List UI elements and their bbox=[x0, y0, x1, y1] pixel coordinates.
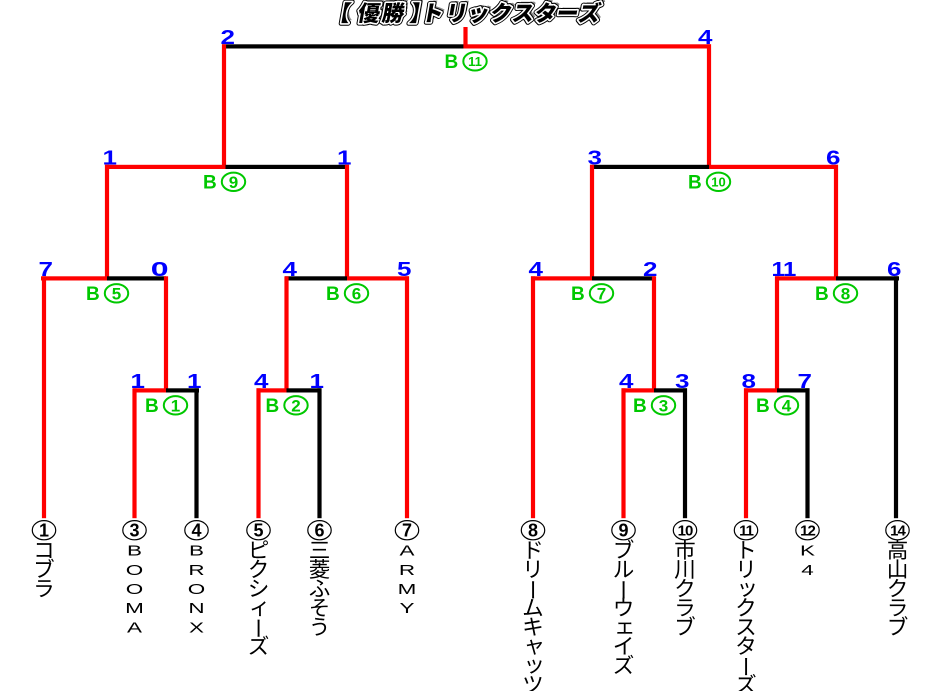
svg-text:1: 1 bbox=[310, 370, 325, 392]
label B10 bbox=[688, 172, 730, 193]
team name 1 bbox=[36, 543, 54, 597]
svg-text:M: M bbox=[125, 601, 144, 617]
team badge 7 bbox=[395, 521, 418, 541]
match B5 horizontal bbox=[41, 276, 107, 280]
svg-text:5: 5 bbox=[253, 521, 263, 541]
svg-text:4: 4 bbox=[801, 563, 813, 579]
team 10 ichikawa entry line bbox=[683, 388, 687, 518]
score 5 bbox=[397, 258, 412, 280]
svg-text:12: 12 bbox=[800, 523, 815, 540]
team name 5 bbox=[250, 540, 269, 654]
svg-text:11: 11 bbox=[739, 523, 754, 540]
svg-text:1: 1 bbox=[187, 370, 202, 392]
svg-text:B: B bbox=[86, 284, 100, 305]
B10 left vertical from B7 bbox=[590, 165, 594, 281]
svg-text:B: B bbox=[127, 543, 142, 559]
B7 right vertical from B3 bbox=[652, 276, 656, 392]
label B4 bbox=[756, 396, 798, 417]
team 1 kobra entry line bbox=[42, 276, 46, 518]
svg-text:3: 3 bbox=[588, 146, 603, 168]
svg-text:14: 14 bbox=[890, 523, 906, 540]
svg-text:K: K bbox=[800, 543, 815, 559]
team badge 9 bbox=[612, 521, 635, 541]
team 4 BRONX entry line bbox=[194, 388, 198, 518]
label B6 bbox=[326, 284, 368, 305]
svg-text:3: 3 bbox=[675, 370, 690, 392]
team badge 11 bbox=[734, 521, 757, 540]
score 1 bbox=[131, 370, 146, 392]
match B2 horizontal bbox=[257, 388, 287, 392]
team 5 pixies entry line bbox=[256, 388, 260, 518]
svg-text:O: O bbox=[126, 563, 143, 579]
svg-text:7: 7 bbox=[597, 284, 606, 303]
score 1 bbox=[337, 146, 352, 168]
svg-text:5: 5 bbox=[112, 284, 121, 303]
team name 12 bbox=[800, 543, 815, 578]
score 8 bbox=[742, 370, 757, 392]
svg-text:10: 10 bbox=[678, 523, 693, 540]
team badge 10 bbox=[673, 521, 696, 540]
team badge 3 bbox=[123, 521, 146, 541]
team badge 5 bbox=[247, 521, 270, 541]
team 9 blueways entry line bbox=[621, 388, 625, 518]
B9 left vertical from B5 bbox=[105, 165, 109, 281]
svg-text:O: O bbox=[188, 582, 205, 598]
svg-text:4: 4 bbox=[698, 26, 713, 48]
svg-text:1: 1 bbox=[103, 146, 118, 168]
title champion label bbox=[341, 0, 605, 23]
svg-text:R: R bbox=[188, 563, 204, 579]
B6 left vertical from B2 bbox=[284, 276, 288, 392]
svg-text:6: 6 bbox=[314, 521, 324, 541]
svg-text:1: 1 bbox=[39, 521, 49, 541]
svg-text:2: 2 bbox=[221, 26, 235, 48]
team badge 14 bbox=[886, 521, 909, 540]
score 4 bbox=[529, 258, 544, 280]
svg-text:3: 3 bbox=[659, 396, 668, 415]
svg-text:B: B bbox=[571, 284, 585, 305]
score 0 bbox=[151, 258, 169, 280]
svg-text:2: 2 bbox=[643, 258, 657, 280]
svg-text:B: B bbox=[688, 172, 702, 193]
team name 11 bbox=[737, 541, 756, 691]
match B4 horizontal bbox=[744, 388, 777, 392]
svg-text:9: 9 bbox=[229, 173, 238, 192]
svg-text:O: O bbox=[126, 582, 143, 598]
label B7 bbox=[571, 284, 613, 305]
score 7 bbox=[798, 370, 812, 392]
svg-text:4: 4 bbox=[254, 370, 269, 392]
team 8 dreamcats entry line bbox=[531, 276, 535, 518]
label B11 bbox=[445, 52, 487, 73]
team badge 4 bbox=[185, 521, 208, 541]
team name 14 bbox=[888, 540, 907, 636]
team badge 12 bbox=[796, 521, 819, 540]
svg-text:8: 8 bbox=[841, 284, 850, 303]
score 2 bbox=[221, 26, 235, 48]
score 6 bbox=[887, 258, 902, 280]
svg-text:3: 3 bbox=[129, 521, 139, 541]
svg-text:M: M bbox=[398, 582, 417, 598]
svg-text:1: 1 bbox=[783, 258, 796, 281]
svg-text:4: 4 bbox=[782, 396, 792, 415]
score 6 bbox=[826, 146, 841, 168]
match B8 horizontal bbox=[775, 276, 836, 280]
svg-text:N: N bbox=[188, 601, 204, 617]
final match B11 horizontal bbox=[222, 44, 466, 48]
score 7 bbox=[39, 258, 53, 280]
champion stub vertical bbox=[463, 27, 467, 49]
score 1 bbox=[310, 370, 325, 392]
svg-text:11: 11 bbox=[468, 54, 482, 69]
team name 6 bbox=[310, 542, 330, 636]
svg-text:B: B bbox=[203, 172, 217, 193]
svg-text:7: 7 bbox=[39, 258, 53, 280]
svg-text:6: 6 bbox=[352, 284, 361, 303]
team 11 trickstars entry line bbox=[744, 388, 748, 518]
svg-text:B: B bbox=[445, 52, 459, 73]
B9 right vertical from B6 bbox=[345, 165, 349, 281]
score 3 bbox=[675, 370, 690, 392]
svg-text:B: B bbox=[266, 396, 280, 417]
B10 right vertical from B8 bbox=[834, 165, 838, 281]
score 11 bbox=[772, 258, 797, 281]
team name 9 bbox=[614, 539, 633, 674]
svg-text:4: 4 bbox=[619, 370, 634, 392]
svg-text:8: 8 bbox=[528, 521, 538, 541]
team badge 8 bbox=[521, 521, 544, 541]
svg-text:R: R bbox=[399, 563, 415, 579]
svg-text:5: 5 bbox=[397, 258, 412, 280]
match B6 horizontal bbox=[285, 276, 347, 280]
svg-text:B: B bbox=[189, 543, 204, 559]
label B3 bbox=[633, 396, 675, 417]
score 4 bbox=[254, 370, 269, 392]
B5 right vertical from B1 bbox=[164, 276, 168, 392]
score 1 bbox=[103, 146, 118, 168]
final left vertical from B9 bbox=[222, 44, 226, 169]
svg-text:B: B bbox=[756, 396, 770, 417]
svg-text:B: B bbox=[145, 396, 159, 417]
svg-text:B: B bbox=[326, 284, 340, 305]
team 3 BOOMA entry line bbox=[132, 388, 136, 518]
svg-text:6: 6 bbox=[826, 146, 841, 168]
svg-text:7: 7 bbox=[798, 370, 812, 392]
match B1 horizontal bbox=[133, 388, 166, 392]
label B5 bbox=[86, 284, 128, 305]
team badge 1 bbox=[32, 521, 55, 541]
team 14 takayama entry line bbox=[894, 276, 898, 518]
svg-text:1: 1 bbox=[171, 396, 180, 415]
svg-text:7: 7 bbox=[402, 521, 412, 541]
svg-text:1: 1 bbox=[337, 146, 352, 168]
svg-text:6: 6 bbox=[887, 258, 902, 280]
svg-text:10: 10 bbox=[711, 175, 725, 190]
score 2 bbox=[643, 258, 657, 280]
svg-text:A: A bbox=[399, 543, 414, 559]
score 4 bbox=[619, 370, 634, 392]
team name 3 bbox=[125, 543, 144, 636]
team name 8 bbox=[524, 541, 542, 691]
team 12 K4 entry line bbox=[805, 388, 809, 518]
svg-text:8: 8 bbox=[742, 370, 757, 392]
label B8 bbox=[815, 284, 857, 305]
svg-text:A: A bbox=[127, 620, 142, 636]
svg-text:4: 4 bbox=[283, 258, 298, 280]
svg-text:9: 9 bbox=[618, 521, 628, 541]
B8 left vertical from B4 bbox=[775, 276, 779, 392]
label B1 bbox=[145, 396, 187, 417]
svg-text:1: 1 bbox=[131, 370, 146, 392]
score 4 bbox=[283, 258, 298, 280]
match B10 horizontal bbox=[590, 165, 709, 169]
team 7 ARMY entry line bbox=[405, 276, 409, 518]
team name 7 bbox=[398, 543, 417, 617]
team name 10 bbox=[675, 540, 695, 636]
score 1 bbox=[187, 370, 202, 392]
svg-text:X: X bbox=[189, 620, 204, 636]
score 3 bbox=[588, 146, 603, 168]
svg-text:B: B bbox=[815, 284, 829, 305]
match B3 horizontal bbox=[622, 388, 655, 392]
svg-text:4: 4 bbox=[529, 258, 544, 280]
team name 4 bbox=[188, 543, 205, 636]
label B9 bbox=[203, 172, 245, 193]
svg-text:4: 4 bbox=[191, 521, 201, 541]
label B2 bbox=[266, 396, 308, 417]
svg-text:2: 2 bbox=[291, 396, 300, 415]
svg-text:B: B bbox=[633, 396, 647, 417]
svg-text:Y: Y bbox=[399, 601, 414, 617]
team 6 mitsubishi entry line bbox=[317, 388, 321, 518]
team badge 6 bbox=[308, 521, 331, 541]
svg-text:0: 0 bbox=[151, 258, 169, 280]
match B9 horizontal bbox=[105, 165, 226, 169]
final right vertical from B10 bbox=[707, 44, 711, 169]
score 4 bbox=[698, 26, 713, 48]
match B7 horizontal bbox=[531, 276, 592, 280]
